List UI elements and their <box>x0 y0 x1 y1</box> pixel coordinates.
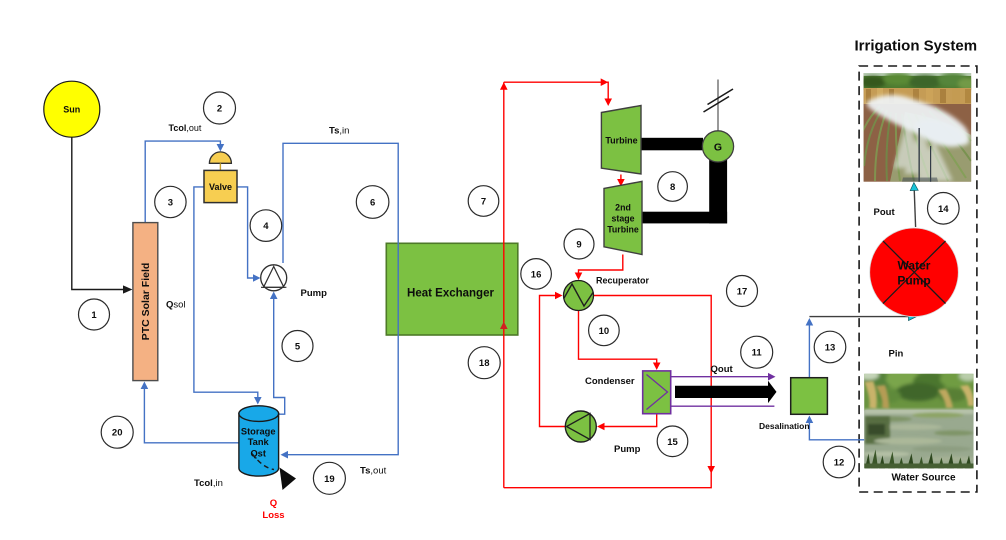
svg-text:17: 17 <box>737 287 748 298</box>
irrigation system dashed boundary <box>859 66 977 492</box>
wire: riser from bottom loop through HX to top (red) <box>500 82 508 488</box>
wire: valve to pump P1 (blue) <box>237 187 261 282</box>
node 11 <box>741 336 773 368</box>
svg-text:G: G <box>714 142 722 154</box>
wire Pout: water pump to irrigation photo (gray with cyan arrow) <box>910 183 918 228</box>
wire: storage tank to solar field (blue) <box>141 382 239 443</box>
node 15 <box>657 426 688 457</box>
svg-text:2nd: 2nd <box>615 203 631 213</box>
svg-text:Ts,out: Ts,out <box>360 466 387 477</box>
wire: valve to storage tank (blue) <box>194 187 262 405</box>
node 6 <box>356 186 389 219</box>
svg-text:8: 8 <box>670 182 675 193</box>
node 4 <box>250 210 282 242</box>
svg-text:Turbine: Turbine <box>605 136 637 146</box>
svg-text:Loss: Loss <box>262 510 284 521</box>
svg-text:Qout: Qout <box>711 364 734 375</box>
wire: 2nd stage turbine to recuperator (red) <box>575 255 623 281</box>
node 1 <box>79 299 110 330</box>
svg-text:Valve: Valve <box>209 182 232 192</box>
svg-text:Qsol: Qsol <box>166 300 186 311</box>
generator G <box>702 131 733 162</box>
node 3 <box>155 186 186 217</box>
node 17 <box>727 276 758 307</box>
wire Ts,in / Ts,out: pump P1 through heat exchanger to storage tank (blue) <box>281 143 399 458</box>
label Q Loss (red) <box>262 498 284 521</box>
svg-text:5: 5 <box>295 342 301 353</box>
node 13 <box>814 331 846 363</box>
svg-text:2: 2 <box>217 104 222 115</box>
photo: irrigation field <box>857 73 978 182</box>
svg-text:18: 18 <box>479 358 490 369</box>
svg-text:PTC Solar Field: PTC Solar Field <box>140 263 152 341</box>
shaft: generator to 2nd stage turbine (black L bar) <box>642 155 727 223</box>
svg-text:Sun: Sun <box>63 105 80 115</box>
wire: generator to grid with transmission slashes (gray) <box>704 80 734 131</box>
photo: water source <box>859 369 977 468</box>
heat exchanger HX1 <box>386 243 518 335</box>
sun <box>44 81 100 137</box>
svg-text:Pin: Pin <box>889 349 904 360</box>
node 7 <box>468 186 499 217</box>
svg-text:16: 16 <box>531 269 542 280</box>
svg-text:Storage: Storage <box>241 427 276 437</box>
node 20 <box>101 416 133 448</box>
node 12 <box>823 446 855 478</box>
node 18 <box>468 347 500 379</box>
svg-text:15: 15 <box>667 437 678 448</box>
svg-text:Pump: Pump <box>301 288 328 299</box>
svg-text:Condenser: Condenser <box>585 376 635 387</box>
wire Pin: line into water pump (gray with cyan arrow) <box>809 313 916 321</box>
node 10 <box>589 315 620 346</box>
svg-text:stage: stage <box>612 214 635 224</box>
svg-text:3: 3 <box>168 198 173 209</box>
node 5 <box>282 331 313 362</box>
purple line pair: condenser to desalination <box>671 373 776 406</box>
svg-text:Q: Q <box>270 498 277 509</box>
2nd stage turbine T2 <box>604 181 642 254</box>
wire: water source photo to desalination (blue) <box>806 416 865 440</box>
wire: condenser to cycle pump (red) <box>597 414 657 431</box>
svg-text:1: 1 <box>91 310 97 321</box>
node 8 <box>658 172 688 202</box>
wire: recuperator to bottom loop (red) <box>504 296 715 488</box>
svg-text:9: 9 <box>576 240 581 251</box>
node 16 <box>521 259 552 290</box>
svg-text:Pout: Pout <box>874 207 896 218</box>
svg-text:Turbine: Turbine <box>607 225 639 235</box>
recuperator <box>564 281 594 311</box>
svg-text:Desalination: Desalination <box>759 421 810 431</box>
svg-text:11: 11 <box>752 348 763 359</box>
pump P1 (solar loop) <box>261 265 287 291</box>
svg-text:7: 7 <box>481 197 486 208</box>
svg-text:Pump: Pump <box>614 444 641 455</box>
water pump <box>870 228 959 317</box>
svg-text:19: 19 <box>324 474 335 485</box>
Q loss dashed arrow from storage tank <box>252 454 296 491</box>
svg-text:Pump: Pump <box>897 274 930 288</box>
wire: recuperator to condenser (red) <box>579 311 661 370</box>
node 2 <box>204 92 236 124</box>
svg-text:Irrigation System: Irrigation System <box>855 38 978 55</box>
Qout black arrow: condenser to desalination <box>675 381 777 403</box>
storage tank <box>239 406 279 476</box>
wire: cycle pump to recuperator (red) <box>540 292 566 427</box>
wire: top run to turbine (red) <box>504 78 612 106</box>
wire Tcol,out: solar field to valve (blue) <box>145 141 224 223</box>
shaft: turbine to generator (black bar) <box>641 138 703 151</box>
wire: turbine to 2nd stage turbine (red) <box>617 175 625 187</box>
node 14 <box>928 193 960 225</box>
svg-text:Water Source: Water Source <box>891 473 956 484</box>
svg-text:Water: Water <box>898 259 931 273</box>
node 9 <box>564 229 594 259</box>
svg-text:6: 6 <box>370 198 375 209</box>
wire: desalination up to water pump line (blue) <box>806 318 814 378</box>
svg-text:Ts,in: Ts,in <box>329 126 349 137</box>
desalination unit <box>791 378 828 415</box>
svg-text:Heat Exchanger: Heat Exchanger <box>407 288 494 300</box>
PTC solar field <box>133 223 158 381</box>
cycle pump P2 <box>565 411 596 442</box>
condenser <box>643 371 671 414</box>
svg-text:20: 20 <box>112 428 123 439</box>
svg-text:Tcol,in: Tcol,in <box>194 478 223 489</box>
svg-text:14: 14 <box>938 204 949 215</box>
node 19 <box>313 462 345 494</box>
svg-text:12: 12 <box>834 458 845 469</box>
svg-text:4: 4 <box>263 221 269 232</box>
wire: sun to solar field (black) <box>72 137 133 294</box>
turbine T1 <box>601 106 641 175</box>
valve V1 <box>204 152 237 203</box>
svg-text:10: 10 <box>599 326 610 337</box>
wire: storage tank to pump P1 (blue) <box>270 292 285 415</box>
svg-text:Tank: Tank <box>248 437 270 447</box>
svg-text:Tcol,out: Tcol,out <box>169 123 202 133</box>
svg-text:Recuperator: Recuperator <box>596 276 650 286</box>
svg-text:13: 13 <box>825 343 836 354</box>
